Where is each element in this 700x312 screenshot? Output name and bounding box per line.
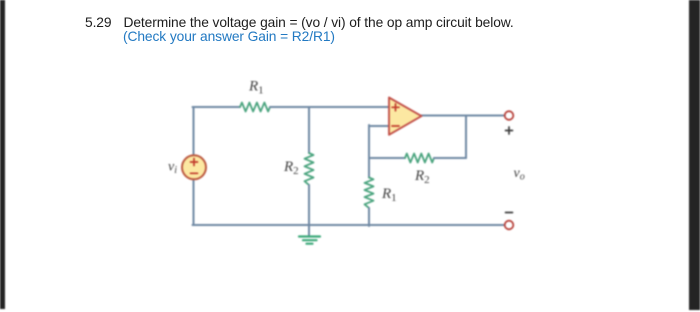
op-amp U1 [389, 98, 422, 135]
problem text line 1 [85, 15, 514, 30]
resistor R1 (top horizontal zigzag) [240, 103, 270, 112]
terminal - output [505, 221, 514, 230]
svg-text:R2: R2 [283, 159, 299, 177]
plus sign at output [506, 127, 513, 134]
resistor R2 (feedback horizontal zigzag) [405, 154, 434, 163]
wire top rail to op-amp + input [270, 106, 389, 108]
svg-text:R1: R1 [248, 79, 264, 97]
ground stub [308, 225, 310, 236]
wire left rail [193, 107, 195, 225]
ground [299, 237, 320, 244]
svg-text:R2: R2 [414, 168, 430, 186]
wire bottom rail [193, 224, 505, 226]
wire feedback vertical riser [465, 116, 467, 159]
wire output [421, 115, 505, 117]
terminal + output [505, 111, 514, 120]
svg-text:R1: R1 [381, 186, 397, 204]
resistor R1 (right vertical zigzag) [365, 178, 374, 209]
wire R2 branch bottom [308, 185, 310, 225]
wire op-amp minus input [369, 125, 389, 127]
wire inverting node vertical [368, 125, 370, 178]
wire R2 branch top [308, 107, 310, 153]
minus sign at output [506, 212, 513, 214]
wire inverting branch bottom [368, 208, 370, 226]
left dark edge bar [0, 0, 5, 309]
right dark edge bar [689, 0, 700, 310]
wire feedback left [369, 157, 405, 159]
source vi [182, 155, 206, 179]
svg-text:vo: vo [514, 166, 525, 183]
wire top rail [193, 106, 241, 108]
problem text line 2 (blue) [123, 29, 335, 44]
resistor R2 (middle vertical zigzag) [305, 153, 314, 185]
svg-text:vi: vi [168, 160, 177, 177]
wire feedback right [434, 157, 466, 159]
